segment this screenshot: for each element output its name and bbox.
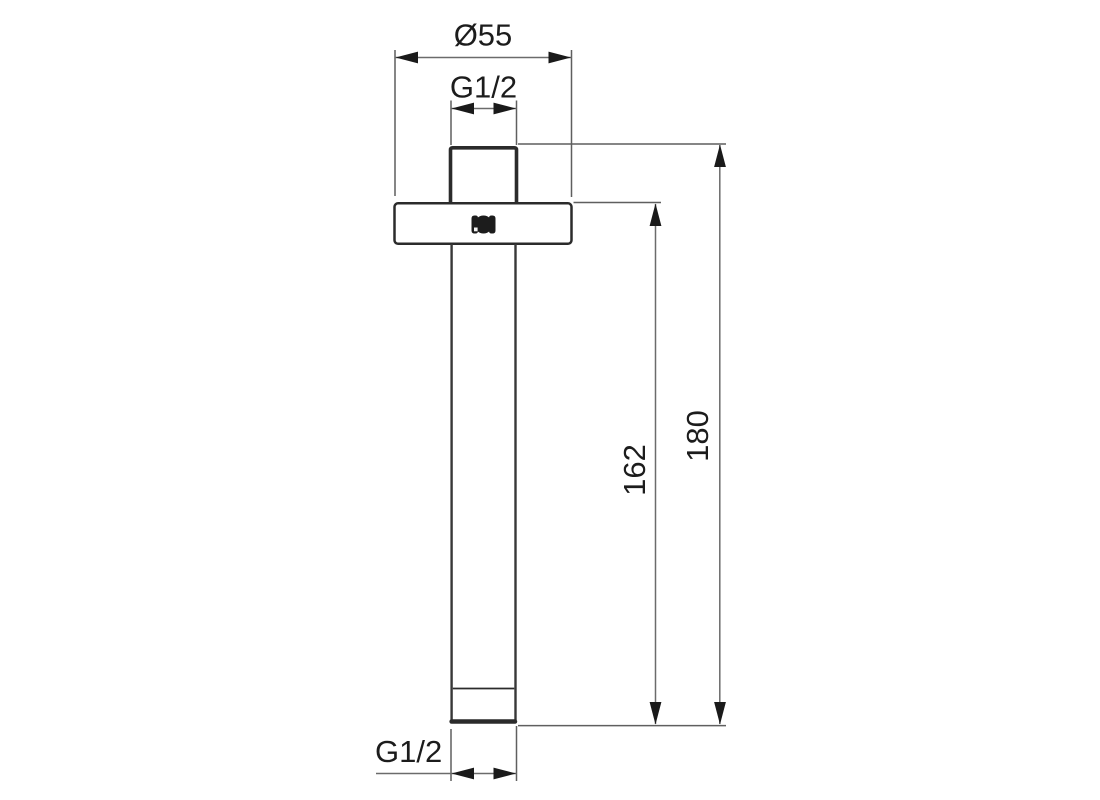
arrowhead right G1/2 bottom xyxy=(494,768,517,780)
extension line from flange top for 162 xyxy=(574,202,662,204)
svg-text:162: 162 xyxy=(617,444,652,496)
extension line from tube bottom xyxy=(518,725,726,727)
arrowhead left Ø55 xyxy=(396,52,419,64)
arrowhead left G1/2 top xyxy=(452,103,475,115)
dimension line 180 xyxy=(719,145,721,724)
extension line from stub top for 180 xyxy=(518,143,726,145)
arrowhead bottom 180 xyxy=(714,702,726,725)
arrowhead top 180 xyxy=(714,145,726,168)
extension line left of Ø55 xyxy=(394,50,396,196)
dimension line G1/2 top xyxy=(451,108,517,110)
dimension line 162 xyxy=(655,204,657,724)
arrowhead bottom 162 xyxy=(650,702,662,725)
extension line right of bottom G1/2 xyxy=(516,726,518,781)
thread shoulder line near tube bottom xyxy=(453,688,515,690)
ceiling flange plate xyxy=(395,203,572,244)
top threaded stub outline xyxy=(451,148,517,203)
arrowhead top 162 xyxy=(650,204,662,227)
shower arm tube left wall xyxy=(450,244,452,720)
svg-text:G1/2: G1/2 xyxy=(450,70,517,105)
arrowhead left G1/2 bottom xyxy=(452,768,475,780)
shower arm tube right wall xyxy=(514,244,516,720)
arrowhead right G1/2 top xyxy=(494,103,517,115)
logo mark on flange xyxy=(472,216,496,234)
svg-text:G1/2: G1/2 xyxy=(375,734,442,769)
extension line right of top G1/2 xyxy=(516,101,518,146)
extension line left of top G1/2 xyxy=(450,101,452,146)
extension line right of Ø55 xyxy=(571,50,573,197)
tube bottom cap xyxy=(449,719,517,724)
dimension leader line G1/2 bottom xyxy=(376,773,517,775)
arrowhead right Ø55 xyxy=(549,52,572,64)
svg-text:180: 180 xyxy=(680,410,715,462)
extension line left of bottom G1/2 xyxy=(450,729,452,781)
dimension line Ø55 xyxy=(395,57,572,59)
svg-text:Ø55: Ø55 xyxy=(454,18,513,53)
